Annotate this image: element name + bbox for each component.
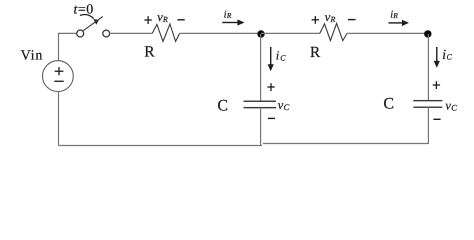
svg-text:C: C — [284, 102, 290, 112]
svg-text:C: C — [280, 53, 286, 62]
svg-text:i: i — [276, 48, 280, 62]
wire: node B down to capacitor C2 — [427, 34, 429, 100]
resistor R1 zigzag — [152, 24, 179, 41]
source minus sign — [54, 81, 63, 82]
svg-text:C: C — [383, 96, 394, 113]
wire: resistor R2 to node B — [347, 32, 428, 34]
voltage source Vin circle — [43, 61, 74, 92]
label + for vC2 — [433, 84, 440, 85]
wire: switch to resistor R1 — [110, 32, 153, 34]
switch actuate arrow (curved) — [80, 15, 94, 19]
label minus for vR2 — [348, 19, 356, 20]
wire: bottom rail loop 1 — [59, 145, 263, 147]
capacitor C1 bottom plate — [244, 107, 277, 108]
wire: left vertical from Vin top up and right to switch — [59, 33, 77, 60]
source plus sign — [55, 71, 64, 72]
svg-text:R: R — [162, 15, 168, 24]
current arrow iC2 — [436, 47, 438, 62]
wire: resistor R1 to node A — [180, 32, 261, 34]
svg-text:R: R — [392, 11, 398, 20]
label + for vR2 — [312, 19, 319, 20]
svg-text:Vin: Vin — [21, 49, 44, 64]
wire: node A to resistor R2 — [261, 32, 320, 34]
svg-text:R: R — [144, 44, 155, 61]
current arrow iR1 — [222, 22, 238, 24]
wire: bottom rail loop 2 — [263, 143, 428, 145]
node B junction dot — [424, 30, 431, 37]
svg-text:i: i — [442, 48, 446, 63]
wire: Vin bottom down to bottom rail — [58, 91, 60, 145]
switch terminal circle right — [103, 30, 110, 37]
wire: node A down to capacitor C1 — [260, 34, 262, 101]
label + for vR1 — [144, 19, 151, 20]
svg-text:C: C — [447, 53, 453, 62]
svg-text:R: R — [310, 44, 321, 61]
label minus for vR1 — [177, 19, 184, 20]
current arrow iC1 — [270, 47, 272, 65]
capacitor C2 bottom plate — [413, 107, 442, 108]
resistor R2 zigzag — [320, 23, 347, 40]
switch blade — [83, 17, 103, 31]
svg-text:C: C — [217, 98, 228, 115]
wire: capacitor C2 down to bottom rail — [427, 107, 429, 144]
label + for vC1 — [267, 86, 274, 87]
current arrow iR2 — [389, 22, 403, 24]
switch terminal circle left — [77, 30, 84, 37]
label minus for vC1 — [268, 118, 275, 119]
svg-text:R: R — [226, 11, 232, 20]
svg-text:R: R — [330, 15, 336, 24]
capacitor C2 top plate — [413, 100, 442, 101]
label minus for vC2 — [433, 119, 440, 120]
svg-text:C: C — [451, 103, 457, 113]
wire: capacitor C1 down to bottom rail — [260, 108, 262, 146]
capacitor C1 top plate — [244, 101, 277, 102]
node A junction dot — [257, 30, 264, 37]
